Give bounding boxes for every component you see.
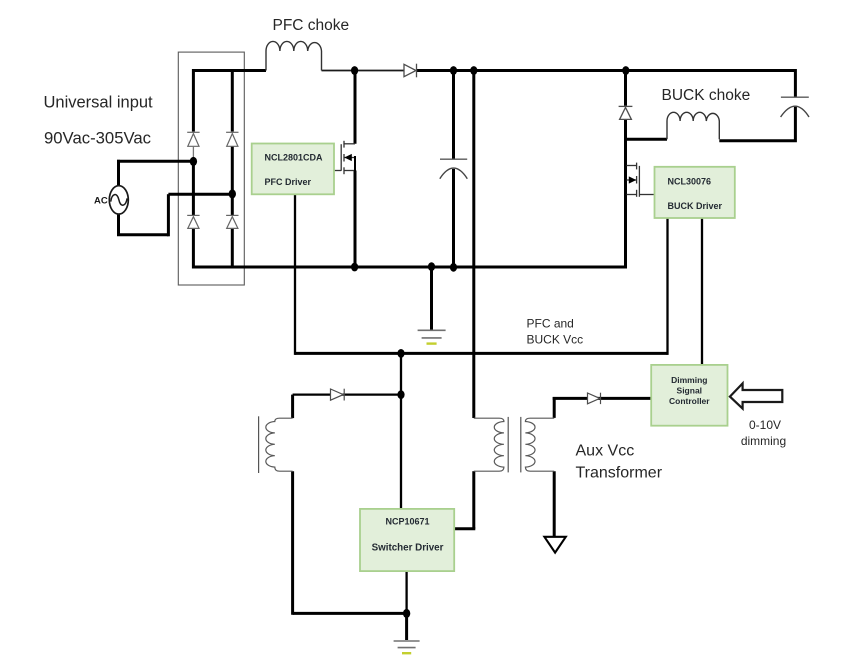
svg-text:PFC choke: PFC choke — [273, 17, 350, 34]
svg-text:PFC Driver: PFC Driver — [265, 177, 312, 187]
svg-text:90Vac-305Vac: 90Vac-305Vac — [44, 129, 151, 148]
svg-text:PFC and: PFC and — [527, 317, 574, 331]
svg-text:Aux Vcc: Aux Vcc — [576, 443, 635, 460]
svg-text:BUCK Vcc: BUCK Vcc — [527, 333, 584, 347]
svg-text:NCL2801CDA: NCL2801CDA — [265, 152, 324, 162]
svg-text:BUCK Driver: BUCK Driver — [668, 201, 723, 211]
svg-text:dimming: dimming — [741, 434, 786, 448]
svg-text:Universal input: Universal input — [44, 93, 154, 111]
svg-text:NCL30076: NCL30076 — [668, 177, 712, 187]
svg-text:Controller: Controller — [669, 396, 710, 406]
svg-text:Transformer: Transformer — [576, 465, 663, 482]
svg-text:Dimming: Dimming — [671, 375, 707, 385]
svg-text:Switcher Driver: Switcher Driver — [372, 542, 444, 553]
svg-text:AC: AC — [94, 196, 108, 207]
svg-text:BUCK choke: BUCK choke — [662, 87, 751, 104]
svg-text:0-10V: 0-10V — [749, 418, 781, 432]
svg-text:NCP10671: NCP10671 — [385, 517, 429, 527]
svg-text:Signal: Signal — [677, 386, 703, 396]
